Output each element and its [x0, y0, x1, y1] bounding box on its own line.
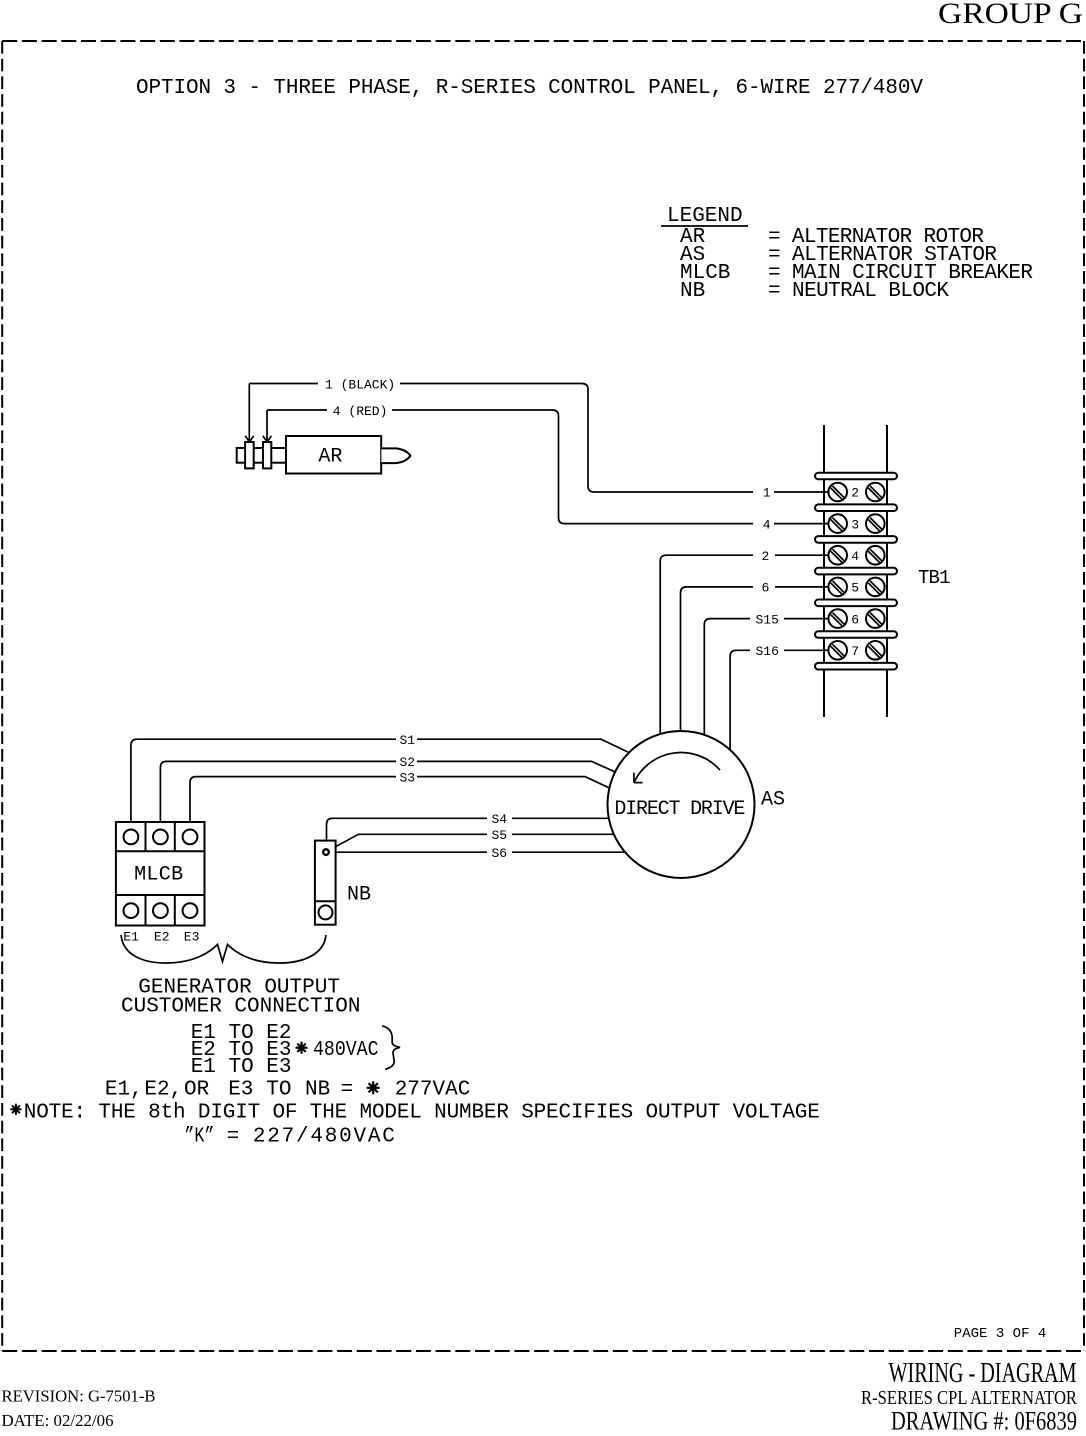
svg-text:E1 TO E3: E1 TO E3: [191, 1056, 292, 1079]
TB1 terminal row 4: [828, 546, 884, 565]
svg-text:NB: NB: [680, 280, 705, 303]
svg-text:TO: TO: [266, 1079, 291, 1102]
svg-text:E3: E3: [228, 1079, 253, 1102]
legend row AS: [680, 244, 997, 267]
svg-text:S2: S2: [400, 755, 416, 770]
svg-text:2: 2: [762, 549, 770, 564]
svg-text:WIRING - DIAGRAM: WIRING - DIAGRAM: [889, 1358, 1077, 1389]
svg-text:PAGE 3 OF 4: PAGE 3 OF 4: [954, 1326, 1047, 1342]
svg-text:REVISION: G-7501-B: REVISION: G-7501-B: [2, 1387, 156, 1406]
alternator rotor AR: [237, 436, 411, 474]
svg-text:E1,: E1,: [105, 1079, 143, 1102]
wire S5 from NB junction to AS: [329, 828, 614, 851]
svg-text:4: 4: [763, 517, 771, 532]
svg-text:S15: S15: [756, 612, 779, 627]
svg-text:=: =: [341, 1079, 354, 1102]
svg-text:OR: OR: [184, 1079, 210, 1102]
svg-text:DRAWING #: 0F6839: DRAWING #: 0F6839: [891, 1407, 1077, 1431]
svg-text:”K”: ”K”: [184, 1126, 214, 1149]
TB1 separator bars: [815, 473, 897, 670]
wire 6 from TB1 terminal 5 to AS: [681, 581, 829, 732]
svg-text:NB: NB: [347, 884, 371, 907]
svg-text:=: =: [227, 1126, 240, 1149]
TB1 terminal row 7: [828, 641, 884, 660]
TB1 terminal row 6: [828, 609, 884, 628]
svg-text:2: 2: [851, 486, 859, 501]
arrow from wire 1 into AR slip ring 1: [245, 384, 254, 443]
svg-text:S6: S6: [492, 846, 508, 861]
TB1 terminal row 2: [828, 483, 884, 502]
wire S16 from TB1 terminal 7 to AS: [730, 644, 828, 750]
wire S1 from MLCB to AS: [131, 733, 629, 830]
svg-text:S1: S1: [400, 733, 416, 748]
wire 4 (RED) from AR to TB1 terminal 3: [267, 404, 828, 533]
svg-text:OPTION 3 - THREE PHASE, R-SERI: OPTION 3 - THREE PHASE, R-SERIES CONTROL…: [136, 77, 923, 100]
svg-text:DATE: 02/22/06: DATE: 02/22/06: [2, 1411, 114, 1430]
brace under generator output connections: [121, 935, 326, 963]
svg-text:6: 6: [762, 581, 770, 596]
svg-text:1: 1: [763, 486, 771, 501]
wire S2 from MLCB to AS: [160, 755, 618, 829]
TB1 terminal row 3: [828, 514, 884, 533]
legend row NB: [680, 280, 949, 303]
legend row MLCB: [680, 262, 1033, 285]
svg-text:E3: E3: [184, 930, 200, 945]
wire S15 from TB1 terminal 6 to AS: [704, 612, 828, 735]
svg-text:1 (BLACK): 1 (BLACK): [325, 377, 395, 392]
TB1 terminal row 5: [828, 578, 884, 597]
wire 2 from TB1 terminal 4 to AS: [660, 549, 828, 734]
svg-text:227/480VAC: 227/480VAC: [253, 1126, 395, 1149]
junction node on NB: [323, 849, 329, 855]
svg-text:NOTE: THE 8th DIGIT OF THE MOD: NOTE: THE 8th DIGIT OF THE MODEL NUMBER …: [24, 1101, 820, 1124]
neutral block NB: [315, 841, 371, 925]
svg-text:6: 6: [851, 612, 859, 627]
svg-text:E2: E2: [154, 930, 170, 945]
svg-text:E1: E1: [123, 930, 139, 945]
svg-text:S16: S16: [756, 644, 779, 659]
svg-text:7: 7: [851, 644, 859, 659]
arrow from wire 4 into AR slip ring 2: [263, 410, 272, 442]
wire S3 from MLCB to AS: [190, 770, 612, 829]
legend row AR: [680, 226, 984, 249]
svg-text:NB: NB: [305, 1079, 330, 1102]
svg-text:GROUP G: GROUP G: [938, 0, 1083, 30]
brace for 480VAC rows: [382, 1026, 400, 1070]
text E1 E2 OR E3 TO NB: [105, 1079, 470, 1102]
wire 1 (BLACK) from AR to TB1 terminal 2: [249, 377, 828, 500]
svg-text:E2,: E2,: [144, 1079, 182, 1102]
svg-text:AS: AS: [761, 789, 785, 812]
svg-text:4: 4: [851, 549, 859, 564]
svg-text:= NEUTRAL BLOCK: = NEUTRAL BLOCK: [768, 280, 949, 303]
note line: [24, 1101, 820, 1124]
svg-text:5: 5: [851, 581, 859, 596]
svg-text:277VAC: 277VAC: [395, 1079, 471, 1102]
svg-text:DIRECT DRIVE: DIRECT DRIVE: [614, 798, 745, 821]
star symbol 480VAC: [296, 1042, 308, 1054]
svg-text:CUSTOMER CONNECTION: CUSTOMER CONNECTION: [121, 996, 360, 1019]
alternator stator AS circle: [608, 731, 755, 878]
wire S4 from NB junction to AS: [327, 812, 609, 849]
svg-text:4 (RED): 4 (RED): [333, 404, 388, 419]
main circuit breaker MLCB: [116, 822, 205, 926]
svg-text:S3: S3: [400, 770, 416, 785]
star symbol 277VAC: [367, 1081, 380, 1094]
text K = 227/480VAC: [184, 1126, 395, 1149]
svg-text:3: 3: [851, 517, 859, 532]
svg-text:480VAC: 480VAC: [313, 1039, 379, 1062]
wire S6 from NB junction to AS: [330, 846, 625, 861]
terminal block TB1 rails: [824, 425, 887, 717]
svg-text:S4: S4: [492, 812, 508, 827]
svg-text:TB1: TB1: [918, 567, 951, 589]
svg-text:MLCB: MLCB: [134, 863, 183, 886]
legend heading: [661, 205, 748, 228]
svg-text:S5: S5: [492, 828, 508, 843]
rotation arrow inside AS: [634, 753, 720, 783]
star symbol NOTE: [10, 1104, 21, 1115]
text E2 TO E3 *480VAC: [191, 1039, 379, 1062]
svg-text:LEGEND: LEGEND: [667, 205, 743, 228]
svg-text:AR: AR: [318, 446, 342, 469]
